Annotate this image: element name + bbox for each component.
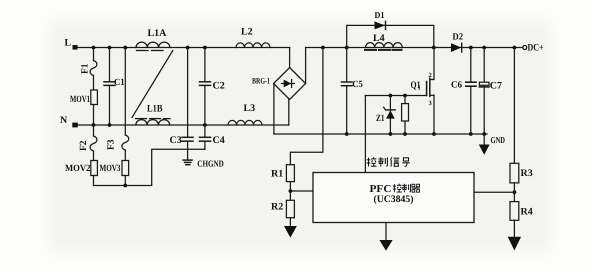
capacitor C1 <box>104 48 115 126</box>
wire controller to R3R4 node <box>474 191 514 193</box>
wire R1R2 node to controller <box>290 190 313 192</box>
terminal DC+ <box>523 46 527 50</box>
svg-text:D2: D2 <box>453 33 464 43</box>
node C1 tap <box>108 46 112 50</box>
node R1/R2 junction <box>289 189 293 193</box>
svg-text:L1B: L1B <box>147 104 163 115</box>
node C2 tap <box>203 46 207 50</box>
node C6 top <box>469 46 473 50</box>
node C2/C4 junction <box>203 123 207 127</box>
label PFC-controller (CJK) <box>393 184 420 193</box>
svg-text:BRG-1: BRG-1 <box>252 76 270 86</box>
varistor MOV1 <box>91 90 98 125</box>
svg-text:C5: C5 <box>352 80 363 90</box>
svg-text:F2: F2 <box>79 140 89 151</box>
wire PE bus <box>94 149 205 185</box>
resistor R2 <box>286 200 294 226</box>
svg-text:MOV3: MOV3 <box>100 164 121 174</box>
svg-text:L4: L4 <box>373 33 385 44</box>
svg-text:C4: C4 <box>213 135 225 146</box>
wire plus rail <box>306 47 523 49</box>
svg-text:R3: R3 <box>521 168 533 179</box>
svg-text:L2: L2 <box>241 27 253 38</box>
node C6 bottom <box>469 132 473 136</box>
ground arrow below R4 <box>508 237 521 251</box>
svg-text:C6: C6 <box>451 81 462 91</box>
resistor R1 <box>286 165 294 201</box>
node Z1 top <box>389 94 393 98</box>
node C5 bottom <box>345 132 349 136</box>
resistor R4 <box>510 202 519 237</box>
svg-text:F1: F1 <box>81 63 91 74</box>
svg-text:DC+: DC+ <box>528 43 544 54</box>
label control-signal (CJK) <box>367 157 410 166</box>
zener Z1 <box>384 96 396 135</box>
ground arrow below controller <box>379 223 392 251</box>
svg-text:2: 2 <box>429 72 432 79</box>
capacitor C5 <box>342 48 353 135</box>
ground GND arrow <box>479 134 490 155</box>
node F1 tap <box>92 46 96 50</box>
wire bridge plus out <box>305 48 307 84</box>
terminal N <box>72 123 78 128</box>
varistor MOV3 <box>122 161 129 186</box>
node F3 tap <box>123 46 127 50</box>
node Z1 bottom <box>389 132 393 136</box>
node C1 bottom <box>108 123 112 127</box>
svg-text:GND: GND <box>491 135 506 145</box>
wire bridge AC bottom <box>288 100 290 126</box>
svg-text:R4: R4 <box>521 207 533 218</box>
svg-text:PFC: PFC <box>370 184 392 195</box>
common-mode choke L1A <box>136 42 170 50</box>
fuse F2 <box>90 125 97 161</box>
node Q1 source <box>432 132 436 136</box>
node resistor bottom <box>403 132 407 136</box>
chassis ground CHGND <box>183 149 192 164</box>
terminal L <box>73 45 78 50</box>
wire sense divider tap <box>290 48 323 165</box>
wire gate line <box>365 95 426 97</box>
wire bridge AC top <box>289 48 291 68</box>
node R3/R4 junction <box>513 190 517 194</box>
common-mode choke L1B <box>136 119 171 125</box>
svg-text:C1: C1 <box>114 78 125 88</box>
PFC controller U1 box <box>313 173 474 223</box>
varistor MOV2 <box>91 161 98 186</box>
wire N rail <box>78 124 289 126</box>
svg-text:N: N <box>60 115 68 126</box>
svg-text:R1: R1 <box>271 169 283 180</box>
diode D2 <box>451 43 462 52</box>
wire L rail <box>78 47 290 49</box>
node C7 top <box>482 46 486 50</box>
resistor R3 <box>510 48 519 202</box>
fuse F1 <box>90 48 97 90</box>
node MOV3 bottom <box>123 184 127 188</box>
wire control signal <box>364 96 366 173</box>
svg-text:R2: R2 <box>271 202 283 213</box>
capacitor C7 electrolytic <box>479 48 489 135</box>
bridge rectifier BRG-1 <box>274 68 306 100</box>
capacitor C2 <box>200 48 211 126</box>
node C3 tap <box>186 46 190 50</box>
node R3 top <box>513 46 517 50</box>
svg-text:Z1: Z1 <box>376 114 385 124</box>
svg-text:D1: D1 <box>375 10 385 20</box>
svg-text:CHGND: CHGND <box>197 159 224 169</box>
capacitor C3 <box>182 48 193 150</box>
svg-text:(UC3845): (UC3845) <box>374 194 414 205</box>
node gate resistor top <box>403 94 407 98</box>
node sense tap <box>321 46 325 50</box>
svg-text:1: 1 <box>418 85 421 92</box>
capacitor C6 <box>466 48 476 135</box>
inductor L3 <box>228 120 262 125</box>
diode D1 bypass loop <box>347 21 434 47</box>
ground arrow below R2 <box>284 226 297 238</box>
node C5/D1 left <box>345 46 349 50</box>
svg-text:C7: C7 <box>490 81 502 92</box>
inductor L2 <box>236 43 270 48</box>
resistor gate pulldown <box>402 96 409 135</box>
node D1 right / Q1 drain <box>432 46 436 50</box>
svg-text:L: L <box>65 38 72 49</box>
wire negative rail <box>274 133 487 135</box>
inductor L4 <box>365 43 402 50</box>
coupling line L1A-L1B <box>132 51 173 118</box>
node C7 bottom <box>482 132 486 136</box>
svg-text:L1A: L1A <box>148 28 168 39</box>
svg-text:MOV1: MOV1 <box>70 95 90 105</box>
svg-text:C2: C2 <box>213 81 225 92</box>
MOSFET Q1 <box>427 48 434 135</box>
node MOV1/F2 junction <box>92 123 96 127</box>
capacitor C4 <box>200 125 211 149</box>
wire bridge minus out <box>273 84 275 135</box>
svg-text:MOV2: MOV2 <box>65 164 91 174</box>
svg-text:F3: F3 <box>107 139 117 150</box>
svg-text:C3: C3 <box>170 135 182 146</box>
svg-text:L3: L3 <box>244 103 256 114</box>
fuse F3 <box>122 48 129 161</box>
